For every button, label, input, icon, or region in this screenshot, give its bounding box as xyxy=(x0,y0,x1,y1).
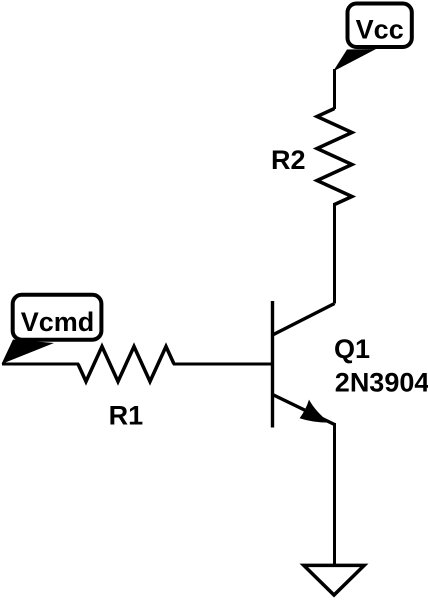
collector lead xyxy=(273,304,335,336)
resistor R1 xyxy=(78,347,174,382)
net flag Vcmd xyxy=(2,295,102,364)
wire R1 to Q1 base xyxy=(173,363,274,366)
wire Vcmd to R1 xyxy=(2,363,79,366)
svg-text:Vcc: Vcc xyxy=(356,15,404,45)
svg-text:2N3904: 2N3904 xyxy=(335,368,428,398)
wire Q1 emitter to ground xyxy=(333,423,336,564)
ground xyxy=(304,565,364,595)
svg-text:R1: R1 xyxy=(109,401,144,431)
svg-text:Q1: Q1 xyxy=(334,334,370,364)
base bar xyxy=(271,301,274,428)
wire Vcc to R2 xyxy=(333,69,336,109)
emitter arrow xyxy=(300,400,330,423)
net flag Vcc xyxy=(333,4,412,72)
emitter lead xyxy=(273,395,335,425)
svg-text:Vcmd: Vcmd xyxy=(21,307,95,337)
wire R2 to Q1 collector xyxy=(333,203,336,304)
resistor R2 xyxy=(317,109,352,205)
transistor Q1 (NPN) xyxy=(273,301,335,428)
svg-text:R2: R2 xyxy=(271,145,306,175)
